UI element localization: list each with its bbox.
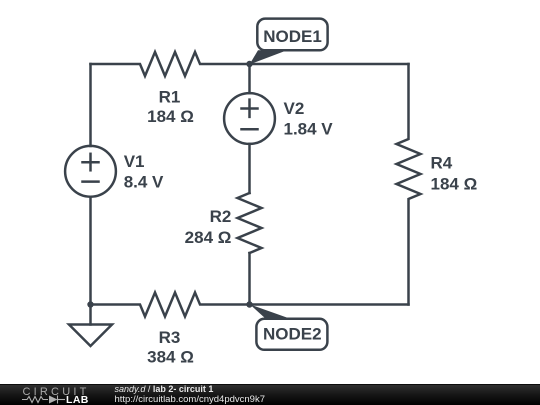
svg-text:R4: R4 xyxy=(431,154,453,173)
svg-text:284 Ω: 284 Ω xyxy=(185,228,232,247)
svg-text:LAB: LAB xyxy=(66,394,89,405)
svg-text:184 Ω: 184 Ω xyxy=(147,107,194,126)
svg-text:NODE2: NODE2 xyxy=(263,325,322,344)
svg-text:1.84 V: 1.84 V xyxy=(284,120,334,139)
svg-text:R2: R2 xyxy=(210,207,232,226)
svg-text:http://circuitlab.com/cnyd4pdv: http://circuitlab.com/cnyd4pdvcn9k7 xyxy=(115,394,266,405)
svg-text:R3: R3 xyxy=(159,328,181,347)
svg-text:R1: R1 xyxy=(159,88,181,107)
svg-text:384 Ω: 384 Ω xyxy=(147,348,194,367)
svg-text:sandy.d / lab 2- circuit 1: sandy.d / lab 2- circuit 1 xyxy=(115,384,214,394)
svg-text:8.4 V: 8.4 V xyxy=(124,173,164,192)
svg-text:NODE1: NODE1 xyxy=(263,27,322,46)
svg-text:V2: V2 xyxy=(284,99,305,118)
svg-text:184 Ω: 184 Ω xyxy=(431,175,478,194)
svg-text:V1: V1 xyxy=(124,152,145,171)
